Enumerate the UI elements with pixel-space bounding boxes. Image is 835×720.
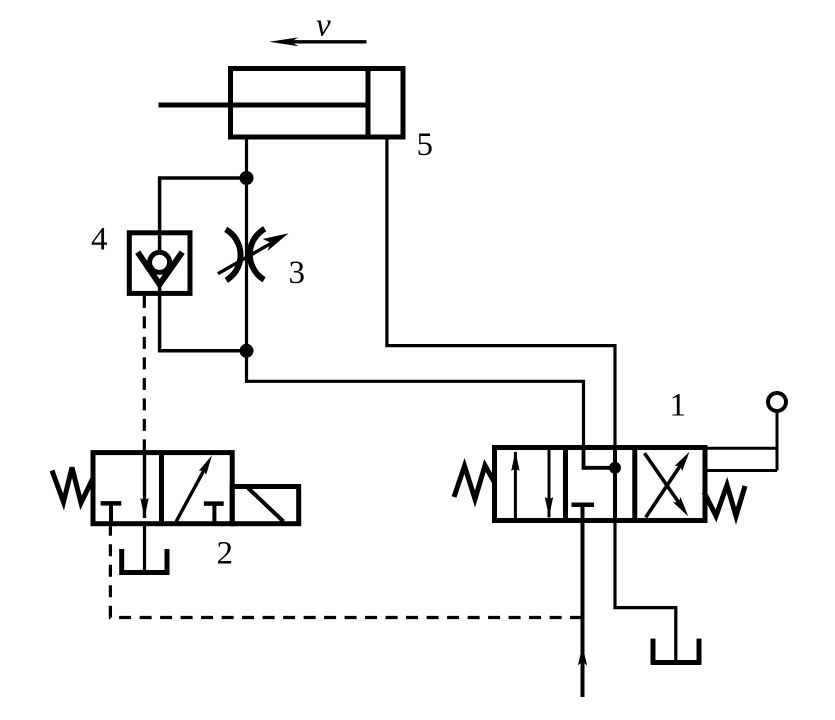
wire node A to node B through throttle — [245, 178, 248, 351]
valve 1 middle box blocked port T — [572, 505, 595, 521]
throttle valve 3 right arc — [250, 229, 265, 280]
valve 1 lever knob — [768, 393, 786, 411]
valve 1 divider right — [632, 448, 637, 521]
tank right — [653, 639, 699, 663]
tank left — [122, 549, 167, 573]
valve 1 right spring — [704, 485, 745, 516]
pilot line check valve to valve 2 — [143, 296, 146, 453]
node B — [240, 344, 254, 358]
pressure supply line P — [578, 521, 587, 698]
wire check valve top to node A — [160, 178, 247, 233]
directional valve 2 body — [93, 453, 232, 524]
valve 1 middle box inlet elbow — [584, 448, 616, 468]
valve 1 right box cross arrow down — [645, 453, 689, 516]
wire check valve bottom to node B — [160, 293, 247, 350]
node A — [240, 171, 254, 185]
svg-text:1: 1 — [670, 388, 687, 424]
valve 2 divider — [159, 453, 164, 524]
valve 1 lever — [705, 412, 777, 471]
throttle valve 3 adjust arrow — [218, 233, 289, 273]
check valve U4 bottom line — [158, 284, 162, 294]
wire valve 1 to right tank — [615, 468, 676, 661]
velocity arrow v — [269, 37, 367, 46]
valve 1 left box up arrow — [511, 451, 519, 519]
node C junction in valve 1 — [609, 462, 621, 474]
pilot line valve 2 to pressure line — [110, 524, 582, 618]
svg-text:5: 5 — [417, 127, 434, 163]
valve 2 right box blocked port T — [204, 504, 224, 522]
valve 2 solenoid — [232, 487, 299, 524]
svg-text:v: v — [316, 8, 331, 44]
valve 1 right box cross arrow up — [646, 452, 690, 518]
wire cylinder right port to valve 1 — [387, 140, 615, 468]
wire node B to valve 1 port A — [247, 351, 616, 468]
valve 1 divider left — [563, 448, 568, 521]
svg-text:2: 2 — [217, 536, 234, 572]
check valve U4 top line — [158, 233, 162, 253]
valve 1 left box down arrow — [545, 450, 553, 518]
valve 2 left spring — [52, 468, 93, 504]
svg-text:4: 4 — [91, 222, 108, 258]
throttle valve 3 left arc — [226, 229, 241, 280]
valve 1 left spring — [454, 466, 495, 500]
valve 2 left box blocked port T — [101, 503, 122, 523]
valve 2 left box down arrow — [140, 453, 148, 518]
check valve U4 seat V — [138, 252, 183, 284]
valve 2 right box diagonal arrow — [176, 455, 212, 521]
valve 1 middle box through line — [613, 448, 617, 521]
svg-text:3: 3 — [289, 255, 306, 291]
wire cylinder left port to node A — [245, 140, 248, 179]
directional valve 1 body — [495, 448, 706, 521]
check valve U4 ball — [150, 252, 170, 272]
check valve U4 body — [129, 233, 190, 294]
wire valve 2 to left tank — [143, 524, 146, 571]
cylinder 5 — [159, 66, 404, 140]
